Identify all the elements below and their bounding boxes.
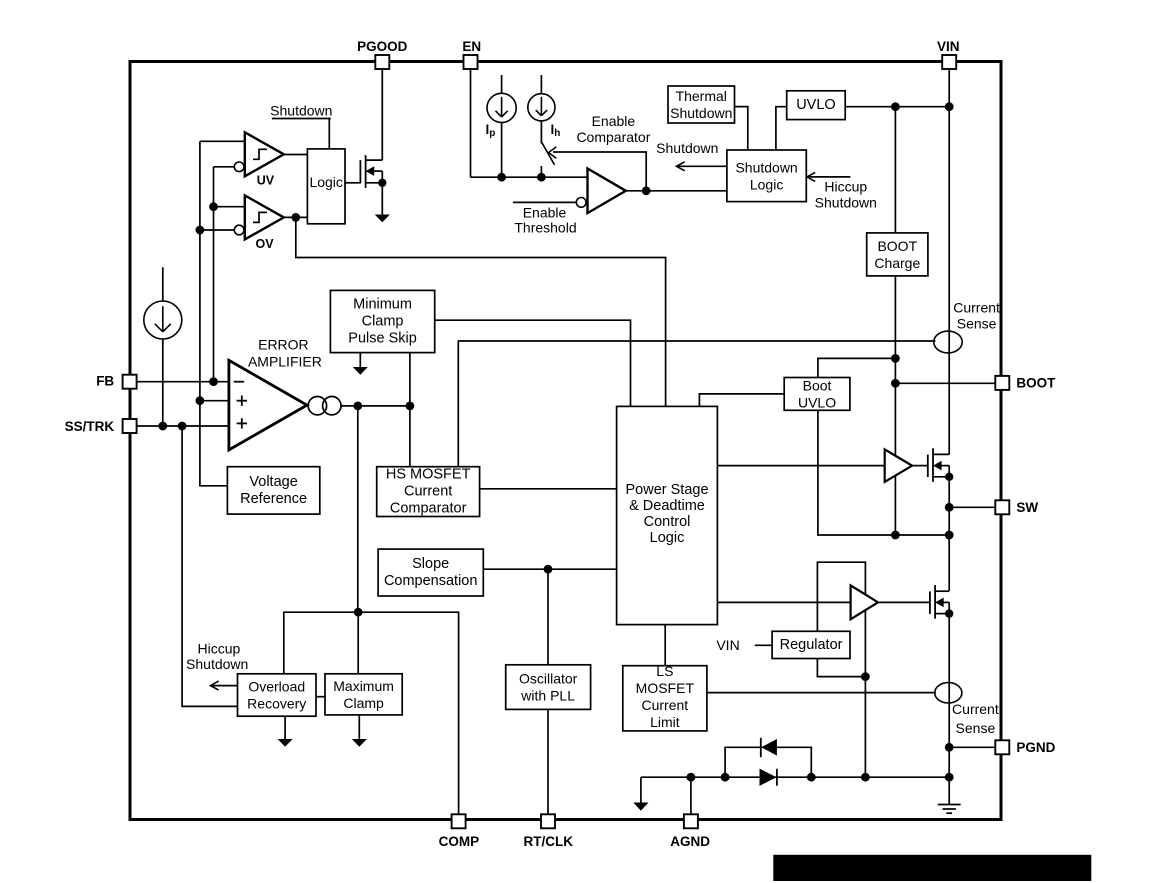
wire minimum clamp to HS comparator	[409, 353, 411, 467]
svg-text:Logic: Logic	[750, 176, 783, 192]
wire maximum clamp ground stub	[358, 715, 360, 740]
svg-text:Voltage: Voltage	[249, 474, 297, 490]
current sense top ellipse	[934, 331, 962, 353]
wire overload recovery ground stub	[284, 716, 286, 739]
arrowhead feedback into switch	[549, 147, 557, 159]
LS power MOSFET	[930, 585, 954, 619]
wire slope compensation to power stage	[483, 568, 616, 570]
svg-text:Enable: Enable	[592, 113, 636, 129]
pin PGND	[995, 740, 1055, 755]
svg-text:VIN: VIN	[937, 39, 960, 54]
error amplifier gm output circles	[308, 397, 341, 415]
black redaction bar	[773, 855, 1091, 881]
svg-text:Shutdown: Shutdown	[270, 102, 332, 118]
svg-text:AMPLIFIER: AMPLIFIER	[248, 354, 322, 370]
wire minimum clamp to power stage	[435, 320, 631, 406]
svg-text:Threshold: Threshold	[514, 220, 576, 236]
enable comparator input bubble	[576, 198, 586, 208]
wire PGND pin	[949, 746, 995, 748]
wire Ih upper stub	[540, 75, 542, 94]
wire logic to pass FET gate	[345, 182, 360, 184]
svg-text:LS: LS	[656, 663, 673, 679]
arrowhead analog ground left	[633, 803, 648, 811]
svg-text:Sense: Sense	[957, 315, 997, 331]
svg-text:HS MOSFET: HS MOSFET	[386, 467, 471, 483]
pin SS/TRK	[65, 419, 137, 434]
svg-text:Overload: Overload	[248, 679, 305, 695]
error amplifier input polarity marks	[234, 382, 247, 429]
wire switch bottom stub	[540, 166, 542, 177]
wire overload recovery to maximum clamp	[316, 696, 325, 698]
svg-text:Minimum: Minimum	[353, 297, 412, 313]
wire COMP pin net	[284, 612, 459, 814]
wire AGND pin stub	[690, 777, 692, 814]
svg-text:RT/CLK: RT/CLK	[524, 834, 574, 849]
svg-text:Limit: Limit	[650, 714, 680, 730]
arrowhead hiccup shutdown	[807, 172, 815, 181]
svg-text:PGOOD: PGOOD	[357, 39, 408, 54]
pin COMP	[439, 814, 480, 849]
svg-text:Hiccup: Hiccup	[198, 640, 241, 656]
wire reference to error amplifier plus input	[200, 400, 229, 402]
pin PGOOD	[357, 39, 408, 69]
wire hiccup shutdown into shutdown logic	[806, 176, 850, 178]
hysteresis symbol UV	[253, 149, 267, 159]
wire boot UVLO top link	[818, 358, 896, 377]
wire LS current limit to current sense	[707, 692, 936, 694]
wire OV inverting input	[200, 229, 234, 231]
svg-text:Maximum: Maximum	[333, 678, 394, 694]
LS gate driver	[851, 585, 878, 619]
arrowhead hiccup shutdown bottom	[210, 681, 218, 690]
svg-text:Compensation: Compensation	[384, 573, 478, 589]
block UVLO	[787, 91, 846, 120]
svg-text:VIN: VIN	[716, 637, 739, 653]
wire down to maximum clamp	[357, 612, 359, 674]
arrowhead shutdown signal	[677, 162, 685, 171]
wire current sense to HS comparator	[458, 341, 935, 467]
wire soft-start current source to SS/TRK	[162, 339, 164, 426]
ground symbol PGND	[938, 777, 961, 813]
wire UVLO to shutdown logic	[776, 107, 787, 150]
pin RT/CLK	[524, 814, 574, 849]
svg-text:SW: SW	[1016, 500, 1038, 515]
wire SW pin	[949, 506, 995, 508]
wire FB pin to error amplifier	[137, 381, 229, 383]
wire OV output to power stage	[296, 217, 666, 406]
block Slope Compensation	[378, 549, 483, 596]
wire soft-start current source stub	[162, 267, 164, 301]
svg-text:Power Stage: Power Stage	[625, 482, 708, 498]
block Overload Recovery	[238, 674, 317, 716]
pass FET for PGOOD	[360, 155, 390, 222]
svg-text:ERROR: ERROR	[258, 336, 309, 352]
wire boot UVLO bottom to SW node	[818, 410, 949, 535]
wire enable threshold to inverting input	[513, 201, 576, 203]
enable comparator	[588, 169, 626, 214]
svg-text:Shutdown: Shutdown	[815, 195, 877, 211]
wire rail left drop	[640, 777, 642, 803]
svg-text:Charge: Charge	[874, 255, 920, 271]
svg-text:Current: Current	[404, 484, 452, 500]
wire error amplifier output	[341, 405, 410, 407]
outer IC boundary box	[130, 62, 1001, 820]
svg-text:Control: Control	[644, 514, 691, 530]
input bubble OV	[234, 225, 244, 235]
block Minimum Clamp Pulse Skip	[330, 290, 434, 352]
svg-text:Clamp: Clamp	[343, 695, 384, 711]
svg-text:Shutdown: Shutdown	[186, 656, 248, 672]
wire BOOT pin	[895, 382, 995, 384]
wire Ip upper stub	[501, 75, 503, 93]
wire Ip to rail	[501, 122, 503, 177]
block Thermal Shutdown	[668, 86, 735, 123]
wire COMP vertical from output	[357, 406, 359, 612]
HS gate driver	[885, 449, 912, 482]
wire LS driver to LS gate	[878, 601, 930, 603]
wire power stage to HS driver	[717, 465, 884, 467]
pin VIN	[937, 39, 960, 69]
wire hiccup shutdown arrow from overload recovery	[210, 685, 238, 687]
error amplifier triangle	[229, 360, 307, 450]
svg-text:Slope: Slope	[412, 556, 449, 572]
svg-text:Current: Current	[953, 299, 1000, 315]
svg-text:Current: Current	[952, 701, 999, 717]
svg-text:AGND: AGND	[670, 834, 710, 849]
wire minimum clamp stub arrow	[359, 353, 361, 368]
hysteresis symbol OV	[253, 212, 267, 222]
wire shutdown signal out of shutdown logic	[676, 165, 727, 167]
wire UV inverting input	[214, 166, 235, 168]
svg-text:UV: UV	[257, 174, 275, 188]
block Maximum Clamp	[325, 674, 402, 715]
wire SS/TRK pin to error amplifier	[137, 425, 229, 427]
svg-text:Boot: Boot	[803, 378, 832, 394]
svg-text:EN: EN	[462, 39, 481, 54]
svg-text:SS/TRK: SS/TRK	[65, 419, 115, 434]
arrowhead overload recovery ground	[278, 739, 293, 747]
svg-text:Logic: Logic	[309, 174, 342, 190]
arrowhead maximum clamp ground	[352, 739, 367, 747]
block HS MOSFET Current Comparator	[377, 467, 480, 517]
wire regulator top rail behind LS driver	[817, 562, 865, 777]
wire HS comparator to power stage	[480, 488, 617, 490]
svg-text:Hiccup: Hiccup	[824, 178, 867, 194]
current sense bottom ellipse	[935, 683, 962, 703]
svg-text:Comparator: Comparator	[390, 501, 467, 517]
svg-text:PGND: PGND	[1016, 740, 1055, 755]
wire LS source down to PGND node	[948, 614, 950, 778]
wire boot charge upper	[894, 107, 896, 233]
svg-text:Logic: Logic	[650, 530, 685, 546]
block Boot UVLO	[784, 378, 850, 411]
wire thermal shutdown to shutdown logic	[735, 107, 748, 150]
wire feedback to hiccup switch	[553, 152, 646, 191]
wire VIN label to regulator	[755, 644, 772, 646]
svg-text:Recovery: Recovery	[247, 696, 306, 712]
wire power stage to LS current limit	[664, 625, 666, 666]
wire reference vertical net	[200, 141, 228, 486]
wire clamp diode branch	[725, 747, 811, 777]
wire UV noninverting input	[200, 140, 245, 142]
svg-text:Clamp: Clamp	[362, 314, 404, 330]
svg-text:COMP: COMP	[439, 834, 480, 849]
svg-text:Ih: Ih	[551, 122, 561, 139]
svg-text:Shutdown: Shutdown	[735, 159, 797, 175]
svg-text:Reference: Reference	[240, 491, 307, 507]
svg-text:with PLL: with PLL	[520, 688, 575, 704]
svg-text:BOOT: BOOT	[1016, 375, 1056, 390]
wire SW node vertical	[948, 477, 950, 591]
switch blade of hiccup switch	[542, 143, 555, 165]
pin SW	[995, 500, 1038, 515]
pin AGND	[670, 814, 710, 849]
svg-text:MOSFET: MOSFET	[636, 680, 695, 696]
comparator OV	[245, 195, 284, 239]
comparator UV	[245, 132, 284, 176]
block Oscillator with PLL	[506, 665, 591, 710]
wire oscillator top	[547, 569, 549, 665]
svg-text:UVLO: UVLO	[798, 395, 836, 411]
block Power Stage and Deadtime Control Logic	[617, 406, 718, 624]
soft-start current source	[144, 301, 182, 339]
wire PGOOD pin to pass FET drain	[381, 69, 383, 160]
wire bottom AGND rail	[641, 776, 949, 778]
block Regulator	[772, 631, 850, 658]
pin FB	[96, 374, 136, 389]
wire hiccup to overload recovery	[182, 426, 237, 706]
wire OV output to logic	[284, 216, 308, 218]
diode D1 upper clamp	[761, 738, 777, 757]
wire OV noninverting input	[214, 206, 245, 208]
wire power stage to LS driver	[717, 601, 850, 603]
svg-text:BOOT: BOOT	[877, 238, 917, 254]
wire Ih to switch	[540, 121, 542, 144]
svg-text:FB: FB	[96, 374, 114, 389]
wire regulator bottom link	[817, 659, 865, 677]
wire EN pin down to current-source rail	[470, 69, 472, 177]
shutdown label underline and drop to logic	[272, 118, 331, 120]
arrowhead minimum clamp	[353, 367, 368, 375]
pin EN	[462, 39, 481, 69]
input bubble UV	[234, 162, 244, 172]
block LS MOSFET Current Limit	[623, 663, 707, 731]
wire oscillator to RT/CLK pin	[547, 709, 549, 814]
svg-text:Ip: Ip	[486, 122, 496, 139]
wire UVLO to VIN rail	[845, 106, 949, 108]
block Shutdown Logic	[727, 150, 806, 202]
wire FB vertical net	[213, 167, 215, 382]
svg-text:OV: OV	[255, 237, 274, 251]
HS power MOSFET	[928, 448, 954, 482]
svg-text:& Deadtime: & Deadtime	[629, 498, 705, 514]
diode D2 lower clamp	[760, 769, 777, 786]
wire boot UVLO left to power stage	[699, 394, 784, 407]
wire VIN rail vertical	[948, 69, 950, 454]
block Voltage Reference	[227, 467, 319, 514]
svg-text:Comparator: Comparator	[576, 129, 650, 145]
block BOOT Charge	[867, 233, 928, 276]
wire HS driver to HS gate	[912, 465, 928, 467]
svg-text:Enable: Enable	[523, 204, 567, 220]
current source Ih	[528, 94, 555, 121]
svg-text:Shutdown: Shutdown	[656, 140, 718, 156]
svg-text:UVLO: UVLO	[796, 97, 836, 113]
svg-text:Sense: Sense	[956, 720, 996, 736]
svg-text:Shutdown: Shutdown	[670, 105, 732, 121]
svg-text:Thermal: Thermal	[676, 88, 727, 104]
svg-text:Regulator: Regulator	[780, 637, 843, 653]
svg-text:Oscillator: Oscillator	[519, 671, 578, 687]
wire boot charge lower vertical	[894, 276, 896, 535]
svg-text:Pulse Skip: Pulse Skip	[348, 331, 417, 347]
wire UV output to logic	[284, 154, 308, 156]
block Logic	[307, 149, 345, 224]
svg-text:Current: Current	[642, 697, 689, 713]
current source Ip	[487, 93, 516, 122]
wire enable comparator output to shutdown logic	[626, 190, 727, 192]
wire EN rail to enable comparator input	[471, 176, 588, 178]
pin BOOT	[995, 375, 1056, 390]
